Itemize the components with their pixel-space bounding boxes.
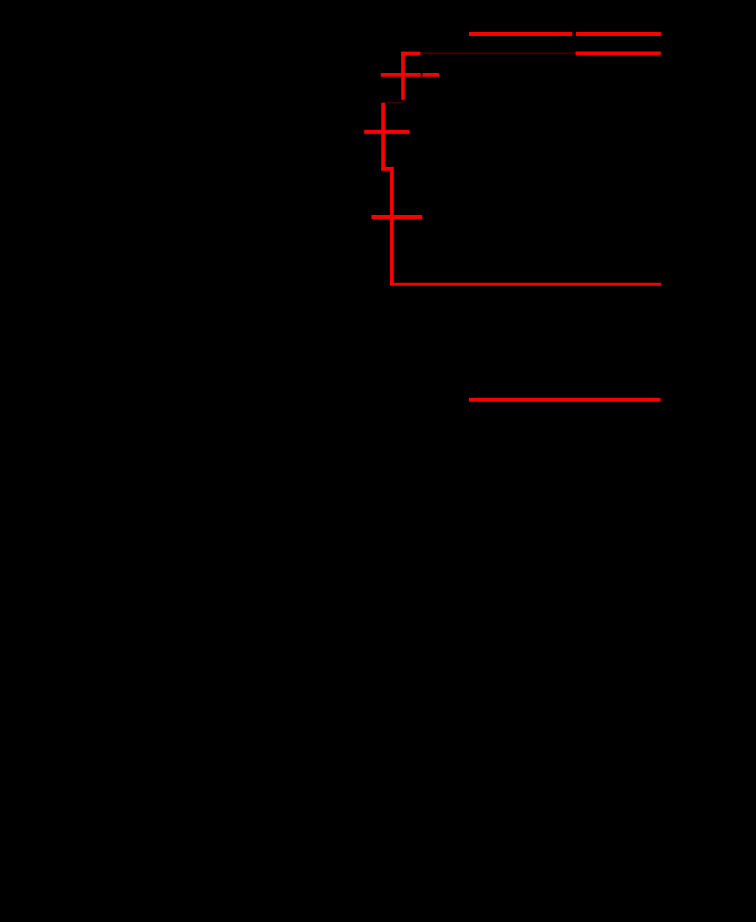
wire: vertical A: [401, 52, 405, 100]
wire: crossbar 1: [381, 73, 421, 77]
wire: second branch faint middle segment: [420, 52, 575, 54]
wire: long bottom branch: [390, 283, 661, 286]
wire: second branch bright stub at node: [401, 52, 420, 56]
wire: top branch left segment: [469, 32, 572, 36]
wire: second branch bright right segment: [576, 52, 661, 56]
wire: lower isolated branch: [469, 398, 661, 402]
wire: top branch right segment: [576, 32, 661, 36]
wire: crossbar 2: [364, 130, 409, 134]
wire: jog horizontal: [381, 167, 393, 171]
wire: vertical B: [381, 103, 385, 171]
wire: faint jog connector: [382, 102, 404, 104]
wire: crossbar 3: [371, 215, 422, 219]
wire: vertical C: [390, 167, 394, 286]
wire: crossbar 1 dash: [422, 73, 439, 77]
